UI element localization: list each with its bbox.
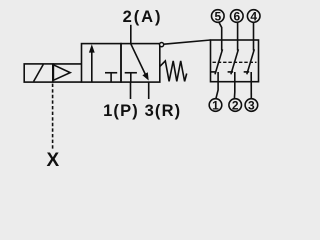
blocked port T (left square) stem	[110, 73, 112, 82]
contact 2 top lead	[237, 22, 239, 51]
contact 3 blade	[247, 49, 255, 74]
svg-text:3: 3	[248, 98, 255, 112]
port 1(P) wire	[130, 82, 132, 99]
pilot compartment top wire	[53, 63, 82, 65]
flow arrow head (left square)	[89, 44, 95, 52]
pilot compartment bottom wire	[53, 81, 82, 83]
blocked port T (right square) stem	[130, 73, 132, 82]
port 3(R) wire	[148, 82, 150, 99]
contact 1 top lead	[219, 22, 222, 51]
coupling dashed line	[213, 61, 257, 63]
svg-text:1: 1	[212, 98, 219, 112]
solenoid slash	[34, 64, 44, 81]
contact 3 lower lead	[250, 72, 252, 99]
svg-text:4: 4	[250, 9, 257, 23]
exhaust arrow head (right square)	[142, 72, 148, 80]
contact 3 top lead	[253, 22, 255, 50]
pivot circle	[160, 43, 164, 47]
terminal 3 circle	[245, 99, 258, 112]
svg-text:1(P) 3(R): 1(P) 3(R)	[103, 102, 181, 120]
terminal 1 circle	[209, 99, 222, 112]
valve body right square	[121, 44, 160, 83]
blocked port T (left square) bar	[105, 72, 117, 74]
svg-text:5: 5	[214, 9, 221, 23]
svg-text:6: 6	[233, 9, 240, 23]
exhaust diagonal 2-3 (right square)	[131, 44, 146, 75]
switch box	[211, 40, 259, 82]
contact 2 blade	[231, 49, 239, 74]
pilot port X dashed line	[52, 84, 54, 150]
contact 1 lower tick	[211, 71, 217, 73]
terminal 4 circle	[247, 10, 260, 23]
port 2(A) wire	[130, 25, 132, 44]
terminal 6 circle	[231, 10, 244, 23]
contact 1 lower lead	[216, 72, 218, 99]
valve body left square	[82, 44, 122, 83]
contact 1 blade	[215, 49, 223, 74]
svg-text:2: 2	[232, 98, 239, 112]
return spring	[160, 61, 187, 82]
contact 2 lower lead	[233, 72, 235, 99]
flow arrow shaft (left square)	[91, 51, 93, 83]
pilot triangle	[53, 65, 70, 81]
solenoid SOL box	[24, 64, 53, 82]
svg-text:X: X	[46, 150, 59, 171]
contact 3 lower tick	[244, 71, 250, 73]
terminal 2 circle	[229, 99, 242, 112]
terminal 5 circle	[212, 10, 225, 23]
contact 2 lower tick	[228, 71, 234, 73]
mechanical link line to switch	[164, 40, 211, 44]
blocked port T (right square) bar	[125, 72, 137, 74]
svg-text:2(A): 2(A)	[123, 8, 163, 26]
